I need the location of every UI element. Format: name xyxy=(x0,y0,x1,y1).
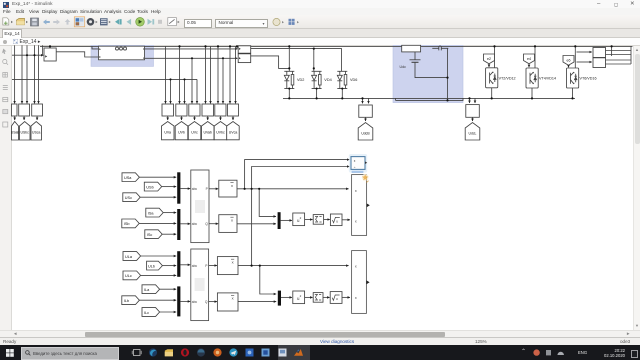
thyristor VD2 xyxy=(284,71,294,98)
library browser highlighted xyxy=(74,17,84,27)
junction dots lower diagram xyxy=(244,188,261,267)
mode dropdown xyxy=(215,19,268,28)
status bar xyxy=(0,337,640,346)
mean block Q1 xyxy=(219,215,237,233)
mux 5 xyxy=(177,286,180,316)
wire P to mean 3 xyxy=(209,265,217,267)
svg-text:ILa: ILa xyxy=(144,288,150,292)
photos xyxy=(246,348,254,356)
wire Q1 to mux xyxy=(237,223,276,225)
svg-text:USca: USca xyxy=(32,131,40,135)
taskbar xyxy=(0,345,640,360)
wire square to sum xyxy=(305,219,313,221)
svg-text:VD4: VD4 xyxy=(324,78,331,82)
fwd arrow xyxy=(53,19,60,24)
goto tag USab xyxy=(11,116,20,140)
gate pulse block right B xyxy=(577,58,632,68)
svg-text:USc: USc xyxy=(125,196,132,200)
wire mux6 to square xyxy=(281,296,292,298)
svg-text:x: x xyxy=(355,189,357,193)
svg-text:÷: ÷ xyxy=(354,166,356,170)
wire sum to sqrt lower xyxy=(323,296,330,298)
svg-text:VD2: VD2 xyxy=(297,78,304,82)
svg-text:e4: e4 xyxy=(527,57,531,61)
sqrt block 1 xyxy=(330,214,342,226)
svg-text:UVca: UVca xyxy=(229,130,238,134)
voltage measurement UdcB xyxy=(359,98,373,117)
open folder xyxy=(17,18,25,24)
thyristor VD6 xyxy=(337,71,347,98)
wire mux1 to power block xyxy=(180,188,190,190)
selection region transformer xyxy=(91,45,154,66)
mean block P2 xyxy=(217,257,238,275)
IGBT VT2/VD12 xyxy=(486,68,498,99)
svg-text:UVbc: UVbc xyxy=(216,130,225,134)
svg-text:ISa: ISa xyxy=(148,211,155,215)
wire Q to mean xyxy=(209,223,218,225)
svg-text:ULc: ULc xyxy=(125,274,132,278)
svg-text:u: u xyxy=(336,220,338,224)
sum of elements 1 xyxy=(313,215,323,225)
folder xyxy=(165,349,173,356)
selected new block xyxy=(349,154,367,173)
wire left verticals xyxy=(14,45,16,103)
wire mux2 to power block xyxy=(180,223,190,225)
wire mux3 to square xyxy=(281,219,292,221)
wire mux5 to power block xyxy=(180,300,190,302)
wire Q2 to mux xyxy=(238,301,276,303)
wire P2 bus xyxy=(238,265,349,267)
new xyxy=(3,18,9,25)
voltage measurement block group left xyxy=(12,104,43,116)
sim config icon xyxy=(168,18,177,26)
from tag ILa xyxy=(142,285,176,294)
mux 6 xyxy=(278,291,281,306)
from tag ILc xyxy=(142,308,176,317)
wire S1 out xyxy=(251,49,342,72)
step back teal xyxy=(115,19,119,24)
svg-text:ISc: ISc xyxy=(147,233,153,237)
wire riser to mux3 xyxy=(259,189,276,217)
svg-text:e2: e2 xyxy=(487,57,491,61)
wire riser to new block in2 xyxy=(252,167,350,266)
svg-text:VT2/VD12: VT2/VD12 xyxy=(499,76,516,80)
start button xyxy=(6,349,14,357)
svg-text:Udc: Udc xyxy=(400,65,407,69)
wire middle verticals from rail 79 xyxy=(170,79,172,103)
orange swirl xyxy=(213,348,221,356)
goto tag UVca xyxy=(227,116,240,140)
mean block P1 xyxy=(219,180,237,197)
svg-text:e6: e6 xyxy=(567,59,571,63)
svg-text:USa: USa xyxy=(124,176,132,180)
wire dc right leg xyxy=(447,48,449,100)
wire mux4 to power block xyxy=(180,264,190,266)
thyristor VD4 xyxy=(312,71,322,98)
hscroll xyxy=(0,330,640,338)
wire transformer A feed xyxy=(92,46,99,49)
wire transformer out a xyxy=(145,48,238,50)
wire sqrt to display lower xyxy=(342,296,350,298)
switch block S1 xyxy=(238,46,251,53)
capacitor Udc xyxy=(410,52,448,78)
wire left tap xyxy=(12,54,43,56)
save xyxy=(31,18,39,26)
stop time box xyxy=(184,19,212,28)
goto tag UVc xyxy=(188,116,201,140)
source block xyxy=(44,46,56,61)
display block lower xyxy=(352,251,370,314)
telegram xyxy=(229,348,237,356)
search box xyxy=(21,347,119,360)
toolbar xyxy=(0,15,640,29)
wire middle verticals from top rail xyxy=(165,46,167,103)
from tag ILb xyxy=(122,296,176,305)
math square u2 xyxy=(293,213,305,226)
mux 4 xyxy=(177,251,180,277)
from tag ISc xyxy=(145,230,176,239)
svg-text:ULb: ULb xyxy=(148,264,155,268)
run green xyxy=(136,18,145,27)
from tag ULc xyxy=(123,271,176,280)
svg-text:UVc: UVc xyxy=(191,130,198,134)
svg-text:abc: abc xyxy=(192,187,198,191)
junction dots top circuit xyxy=(26,45,613,101)
wire thyristor feeds xyxy=(288,46,290,71)
svg-text:abc: abc xyxy=(192,300,198,304)
selection region DC link xyxy=(393,45,463,102)
mux 2 xyxy=(177,209,180,240)
mux 3 xyxy=(278,212,281,229)
svg-text:USbc: USbc xyxy=(21,131,30,135)
from tag e2 xyxy=(484,54,495,67)
wire IGBT feeds xyxy=(494,46,496,67)
voltage measurement UdcL xyxy=(466,98,480,117)
DC link snubber xyxy=(432,45,448,50)
wire square to sum lower xyxy=(305,296,313,298)
stop gray xyxy=(158,20,162,24)
canvas xyxy=(0,46,640,330)
wire riser to mux6 xyxy=(260,266,276,294)
wire sqrt to display xyxy=(342,219,350,221)
sqrt block 2 xyxy=(330,292,342,304)
svg-text:UdcL: UdcL xyxy=(469,132,477,136)
sum of elements 2 xyxy=(313,293,323,303)
mux 1 xyxy=(177,172,180,203)
goto tag UVbc xyxy=(214,116,227,140)
svg-text:x: x xyxy=(355,296,357,300)
opera xyxy=(181,348,189,356)
wire right edge xyxy=(611,46,613,56)
svg-text:UVb: UVb xyxy=(178,130,185,134)
goto tag USbc xyxy=(20,116,31,140)
from tag e4 xyxy=(524,54,535,67)
list icon xyxy=(100,18,108,25)
wire riser to new block in1 xyxy=(245,160,350,189)
from tag ISb xyxy=(122,219,176,228)
IGBT VT4/VD14 xyxy=(526,68,538,98)
svg-text:ISb: ISb xyxy=(124,222,130,226)
svg-text:UdcB: UdcB xyxy=(361,132,370,136)
svg-text:x: x xyxy=(231,183,233,188)
transformer xyxy=(99,46,145,60)
svg-text:ULa: ULa xyxy=(125,255,133,259)
from tag USa xyxy=(122,173,176,182)
svg-text:VT4/VD14: VT4/VD14 xyxy=(539,77,556,81)
goto tag UdcB xyxy=(358,117,373,140)
switch block S2 xyxy=(238,54,251,63)
word/blue xyxy=(262,348,270,356)
from tag USb xyxy=(144,182,176,191)
svg-text:USb: USb xyxy=(146,185,153,189)
power block PQ lower xyxy=(191,249,209,321)
title bar xyxy=(0,0,640,8)
goto tag UVb xyxy=(175,116,188,140)
wire sum to sqrt xyxy=(324,219,330,221)
svg-text:u: u xyxy=(336,297,338,301)
svg-text:UVab: UVab xyxy=(203,130,212,134)
svg-text:USab: USab xyxy=(11,131,20,135)
app icons xyxy=(278,345,294,360)
svg-text:abc: abc xyxy=(192,222,198,226)
wire middle verticals from tap 58 xyxy=(191,58,193,103)
gate pulse block right A xyxy=(577,48,632,58)
rewind teal xyxy=(127,19,132,25)
wire P to mean xyxy=(209,188,218,190)
config gear dark xyxy=(87,18,95,26)
IGBT VT6/VD16 xyxy=(567,68,579,98)
from tag ULb xyxy=(147,261,177,270)
svg-text:x: x xyxy=(355,219,357,223)
svg-text:abc: abc xyxy=(192,264,198,268)
svg-text:ILc: ILc xyxy=(144,311,149,315)
tab strip xyxy=(0,29,640,38)
svg-text:Q: Q xyxy=(205,300,208,304)
svg-text:x: x xyxy=(355,264,357,268)
from tag ISa xyxy=(146,208,176,217)
up arrow xyxy=(65,19,71,25)
svg-text:x: x xyxy=(231,217,233,222)
wire top rail xyxy=(40,45,633,47)
back arrow xyxy=(43,19,50,24)
wire Q to mean 4 xyxy=(209,301,217,303)
svg-text:VT6/VD16: VT6/VD16 xyxy=(580,77,597,81)
warning badge xyxy=(362,174,369,182)
step fwd xyxy=(148,19,153,25)
from tag e6 xyxy=(563,56,574,68)
edge dark sphere xyxy=(149,348,157,356)
DC link block xyxy=(402,45,421,52)
dark sphere xyxy=(197,348,205,356)
power block PQ upper xyxy=(191,170,209,243)
wire S2 out xyxy=(251,56,289,69)
matlab highlighted xyxy=(294,349,303,356)
wire bottom rail xyxy=(283,97,575,99)
wire dc bottom xyxy=(396,98,464,100)
wire P1 bus xyxy=(237,188,349,190)
display block upper xyxy=(352,175,370,236)
window app highlighted xyxy=(279,348,287,356)
goto tag UdcL xyxy=(465,117,480,140)
from tag USc xyxy=(123,193,176,202)
from tag ULa xyxy=(123,252,176,261)
wire transformer out c xyxy=(145,57,238,59)
task view xyxy=(134,349,141,355)
math square u2 lower xyxy=(293,291,305,304)
breadcrumb xyxy=(0,38,640,46)
wire source to transformer xyxy=(56,52,98,57)
two right icons xyxy=(270,17,302,27)
wire left rail xyxy=(12,78,197,80)
svg-text:x: x xyxy=(232,259,234,264)
goto tag UVa xyxy=(162,116,175,140)
svg-text:x: x xyxy=(232,296,234,301)
svg-text:ILb: ILb xyxy=(124,299,129,303)
svg-text:VD6: VD6 xyxy=(350,78,357,82)
mean block Q2 xyxy=(217,293,238,311)
goto tag UVab xyxy=(202,116,215,140)
menu bar xyxy=(0,8,640,15)
voltage measurement block group middle xyxy=(162,104,239,116)
svg-text:UVa: UVa xyxy=(164,130,171,134)
svg-text:Q: Q xyxy=(205,222,208,226)
tray xyxy=(521,349,526,356)
goto tag USca xyxy=(31,116,42,140)
